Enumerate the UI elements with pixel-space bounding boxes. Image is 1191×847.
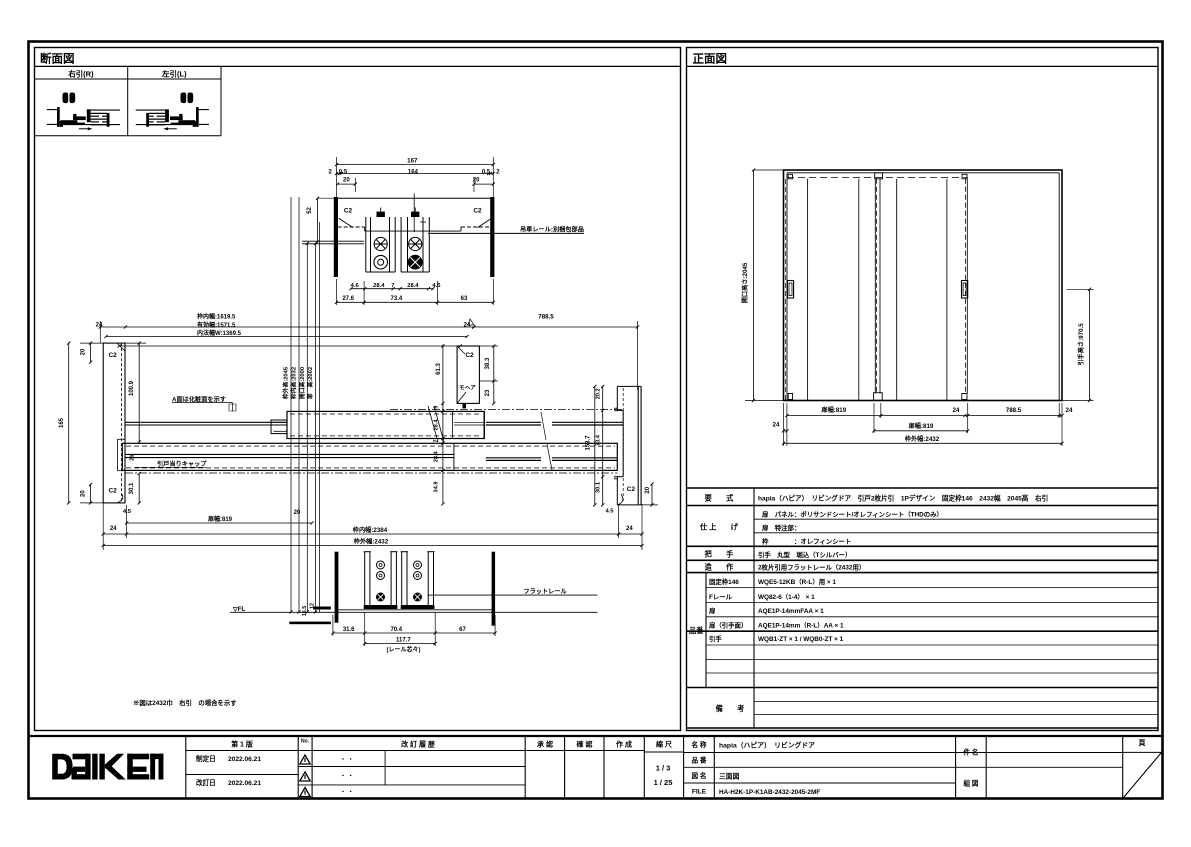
svg-text:28.4: 28.4: [407, 283, 419, 289]
svg-text:WQB1-ZT × 1 / WQB0-ZT × 1: WQB1-ZT × 1 / WQB0-ZT × 1: [758, 636, 844, 643]
svg-text:28.4: 28.4: [434, 419, 440, 431]
svg-text:7: 7: [391, 283, 394, 289]
svg-text:・ ・: ・ ・: [340, 790, 354, 796]
svg-text:枠外高:2045: 枠外高:2045: [282, 366, 290, 399]
svg-text:24: 24: [773, 422, 780, 429]
svg-text:備 考: 備 考: [716, 704, 745, 713]
svg-text:24: 24: [110, 526, 117, 532]
svg-text:4.5: 4.5: [605, 509, 614, 515]
svg-text:73.4: 73.4: [595, 434, 601, 446]
svg-text:扉（引手面）: 扉（引手面）: [709, 620, 747, 629]
svg-text:27.6: 27.6: [342, 296, 354, 302]
svg-text:1 / 3: 1 / 3: [656, 764, 671, 773]
svg-text:第 1 版: 第 1 版: [231, 739, 253, 748]
svg-text:・ ・: ・ ・: [340, 774, 354, 780]
svg-text:hapia（ハピア） リビングドア 引戸2枚片引 1Pデザイ: hapia（ハピア） リビングドア 引戸2枚片引 1Pデザイン 固定枠146 2…: [758, 494, 1048, 503]
svg-text:図 名: 図 名: [691, 771, 706, 780]
svg-text:HA-H2K-1P-K1AB-2432-2045-2MF: HA-H2K-1P-K1AB-2432-2045-2MF: [719, 789, 820, 796]
svg-text:改訂日: 改訂日: [196, 778, 216, 787]
svg-text:右引(R): 右引(R): [67, 69, 94, 79]
svg-text:改 訂 履 歴: 改 訂 履 歴: [401, 739, 435, 748]
svg-text:C2: C2: [344, 208, 353, 215]
svg-text:30.1: 30.1: [129, 482, 135, 494]
svg-text:扉: 扉: [709, 606, 716, 615]
svg-text:28.4: 28.4: [434, 450, 440, 462]
svg-text:開口高:2000: 開口高:2000: [298, 367, 306, 399]
svg-text:24: 24: [626, 526, 633, 532]
svg-text:2022.06.21: 2022.06.21: [228, 780, 261, 787]
svg-text:2枚片引用フラットレール（2432用）: 2枚片引用フラットレール（2432用）: [758, 563, 865, 572]
svg-text:30.1: 30.1: [595, 482, 601, 493]
svg-text:枠外幅:2432: 枠外幅:2432: [353, 537, 389, 545]
svg-text:FILE: FILE: [692, 789, 707, 796]
svg-text:0.5: 0.5: [339, 169, 348, 175]
svg-text:扉幅:819: 扉幅:819: [908, 422, 934, 430]
svg-text:フラットレール: フラットレール: [523, 588, 567, 595]
svg-text:三面図: 三面図: [719, 772, 740, 781]
svg-text:把 手: 把 手: [705, 550, 734, 559]
svg-text:31.6: 31.6: [343, 627, 355, 633]
svg-text:要 式: 要 式: [705, 494, 735, 503]
svg-text:788.5: 788.5: [1006, 407, 1022, 414]
svg-text:23: 23: [485, 389, 491, 396]
svg-text:作 成: 作 成: [616, 739, 632, 748]
svg-text:788.5: 788.5: [538, 313, 554, 320]
svg-text:品 番: 品 番: [691, 756, 706, 765]
svg-text:7: 7: [434, 439, 440, 442]
svg-text:117.7: 117.7: [396, 638, 411, 644]
svg-text:4.5: 4.5: [123, 509, 132, 515]
svg-text:20: 20: [294, 510, 301, 516]
svg-text:hapia（ハピア） リビングドア: hapia（ハピア） リビングドア: [719, 741, 815, 750]
svg-text:開口高さ:2045: 開口高さ:2045: [741, 262, 749, 303]
svg-text:吊車レール:別梱包部品: 吊車レール:別梱包部品: [520, 226, 584, 234]
svg-text:扉 パネル：ポリサンドシート/オレフィンシート（THDのみ）: 扉 パネル：ポリサンドシート/オレフィンシート（THDのみ）: [762, 509, 943, 518]
svg-text:※図は2432巾 右引 の場合を示す: ※図は2432巾 右引 の場合を示す: [133, 698, 237, 707]
svg-text:枠内高:2032: 枠内高:2032: [290, 367, 298, 399]
svg-text:固定枠146: 固定枠146: [709, 577, 739, 586]
svg-text:扉幅:819: 扉幅:819: [820, 406, 846, 414]
svg-text:AQE1P-14mmFAA × 1: AQE1P-14mmFAA × 1: [758, 608, 824, 615]
svg-text:扉幅:819: 扉幅:819: [207, 515, 233, 523]
svg-text:AQE1P-14mm（R-L）AA × 1: AQE1P-14mm（R-L）AA × 1: [758, 621, 844, 629]
svg-text:A面は化粧面を示す: A面は化粧面を示す: [172, 395, 226, 403]
svg-text:モヘア: モヘア: [459, 385, 476, 392]
svg-text:38.3: 38.3: [485, 357, 491, 369]
svg-text:引手高さ:970.5: 引手高さ:970.5: [1077, 323, 1085, 366]
svg-text:確 認: 確 認: [577, 739, 593, 748]
svg-text:組 図: 組 図: [963, 779, 978, 788]
svg-text:仕 上 げ: 仕 上 げ: [699, 523, 739, 532]
svg-text:4.6: 4.6: [351, 283, 360, 289]
svg-text:1 / 25: 1 / 25: [654, 778, 673, 787]
svg-text:件 名: 件 名: [963, 748, 978, 757]
svg-text:正面図: 正面図: [693, 52, 728, 66]
svg-text:0.5: 0.5: [482, 169, 491, 175]
svg-text:No.: No.: [301, 739, 310, 745]
svg-text:引手: 引手: [709, 634, 722, 643]
svg-text:造 作: 造 作: [705, 563, 735, 572]
svg-text:165: 165: [59, 417, 65, 428]
svg-text:C2: C2: [108, 487, 117, 494]
svg-text:引手 丸型 堀込（Tシルバー）: 引手 丸型 堀込（Tシルバー）: [758, 550, 851, 559]
svg-text:164: 164: [408, 169, 419, 175]
svg-text:20.2: 20.2: [595, 388, 601, 399]
svg-text:枠外幅:2432: 枠外幅:2432: [904, 435, 940, 443]
svg-text:Fレール: Fレール: [709, 593, 733, 601]
svg-text:100.9: 100.9: [129, 380, 135, 396]
svg-text:内法幅W:1369.5: 内法幅W:1369.5: [197, 329, 242, 337]
svg-text:扉 高:2002: 扉 高:2002: [306, 367, 314, 400]
svg-text:24: 24: [1066, 407, 1073, 414]
svg-text:枠 ：オレフィンシート: 枠 ：オレフィンシート: [762, 537, 851, 546]
svg-text:WQE5-12KB（R-L）用 × 1: WQE5-12KB（R-L）用 × 1: [758, 578, 836, 586]
svg-text:名 称: 名 称: [691, 740, 706, 749]
svg-text:WQ82-6（1-4） × 1: WQ82-6（1-4） × 1: [758, 593, 815, 601]
svg-text:C2: C2: [108, 352, 117, 359]
svg-text:▽FL: ▽FL: [232, 606, 246, 613]
svg-text:61.3: 61.3: [436, 363, 442, 375]
svg-text:有効幅:1571.5: 有効幅:1571.5: [197, 321, 236, 329]
svg-text:4.5: 4.5: [432, 283, 441, 289]
svg-text:67: 67: [459, 627, 466, 633]
svg-text:34.9: 34.9: [434, 482, 440, 493]
svg-text:167: 167: [407, 158, 418, 165]
svg-text:枠内幅:2384: 枠内幅:2384: [352, 526, 388, 534]
svg-text:24: 24: [953, 407, 960, 414]
svg-text:20: 20: [81, 348, 87, 355]
svg-text:24: 24: [96, 322, 103, 328]
svg-text:扉 特注部：: 扉 特注部：: [762, 523, 800, 532]
svg-text:20: 20: [343, 178, 350, 184]
svg-text:28.4: 28.4: [373, 283, 385, 289]
svg-text:153.7: 153.7: [585, 435, 591, 451]
svg-text:63: 63: [461, 296, 468, 302]
svg-text:・ ・: ・ ・: [340, 758, 354, 764]
svg-text:縮 尺: 縮 尺: [656, 739, 672, 748]
svg-text:左引(L): 左引(L): [161, 69, 187, 79]
svg-text:品番: 品番: [689, 626, 704, 635]
svg-text:C2: C2: [465, 352, 474, 359]
svg-text:頁: 頁: [1139, 739, 1146, 747]
svg-text:20: 20: [645, 486, 651, 493]
svg-text:(レール芯々): (レール芯々): [387, 646, 421, 654]
svg-text:制定日: 制定日: [196, 754, 216, 763]
svg-text:73.4: 73.4: [391, 296, 403, 302]
svg-text:9: 9: [434, 406, 440, 409]
svg-text:C2: C2: [627, 486, 636, 493]
svg-text:枠内幅:1619.5: 枠内幅:1619.5: [197, 312, 236, 320]
svg-text:C2: C2: [473, 208, 482, 215]
svg-text:20: 20: [81, 490, 87, 497]
svg-text:2022.06.21: 2022.06.21: [228, 756, 261, 763]
svg-text:引戸当りキャップ: 引戸当りキャップ: [157, 460, 207, 468]
svg-text:70.4: 70.4: [390, 627, 402, 633]
svg-text:断面図: 断面図: [40, 52, 75, 66]
svg-text:承 認: 承 認: [537, 739, 553, 748]
svg-text:16.5: 16.5: [302, 606, 308, 617]
svg-text:52: 52: [307, 207, 313, 214]
